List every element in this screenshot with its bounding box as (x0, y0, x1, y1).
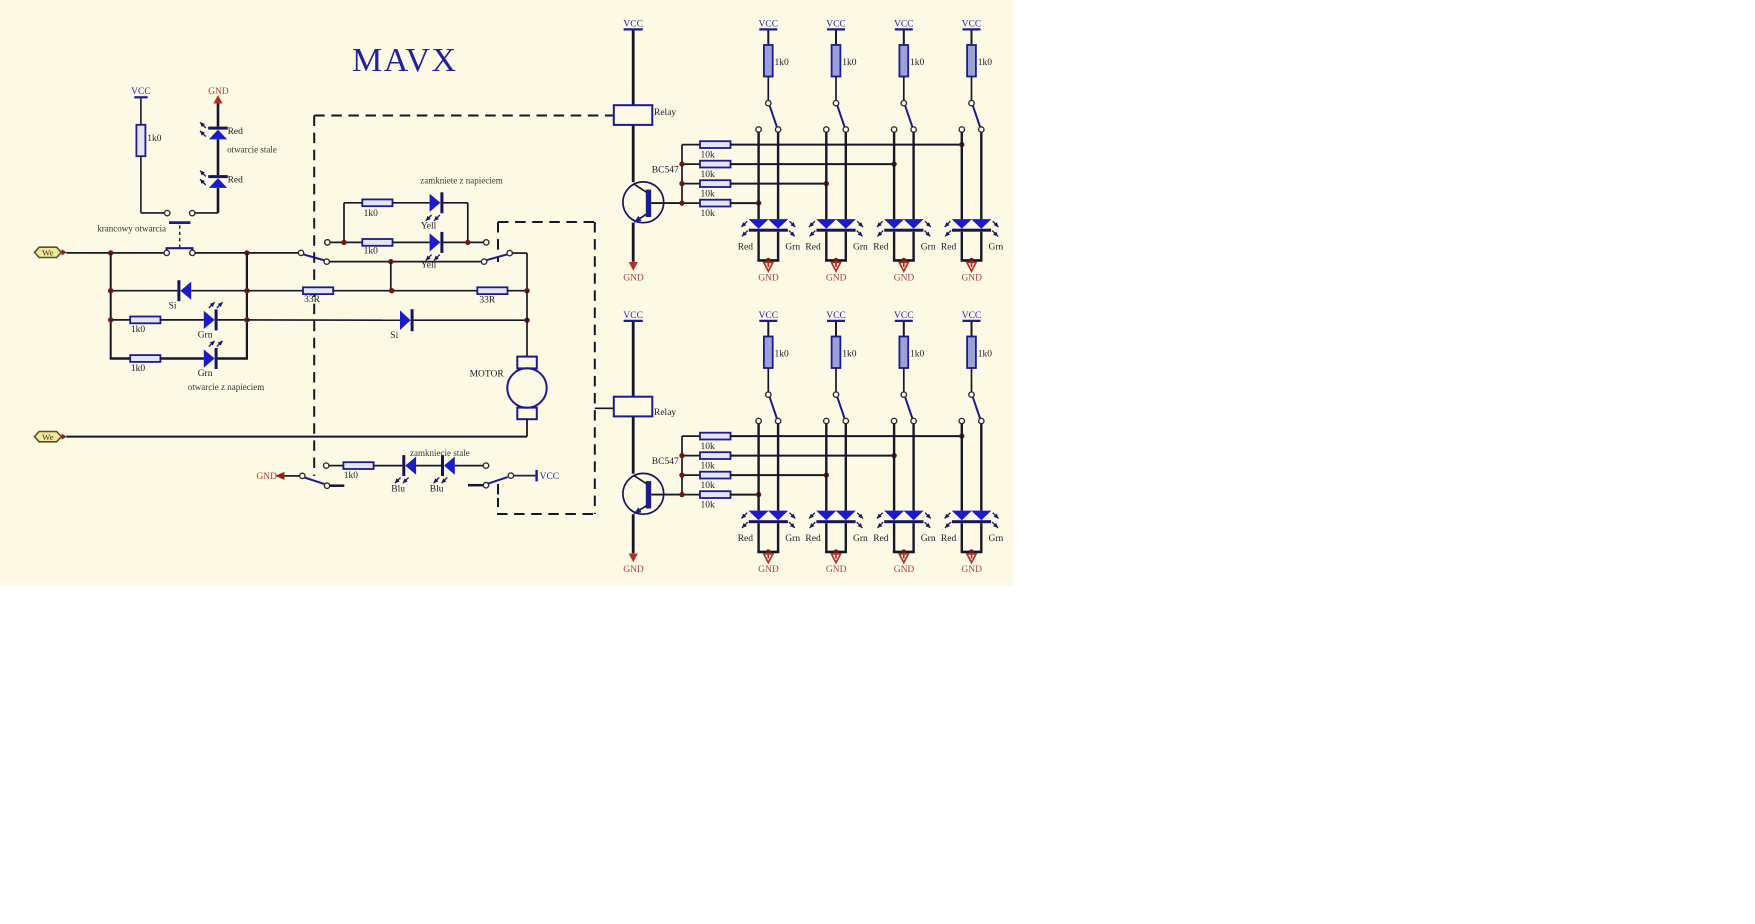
svg-text:otwarcie z napieciem: otwarcie z napieciem (188, 382, 264, 392)
supply arrow GND (column U1) (758, 262, 779, 283)
junction row3-left (108, 317, 113, 322)
wire motor to We2 row (526, 419, 528, 436)
svg-text:10k: 10k (701, 151, 716, 161)
wire LED cathodes to GND bar (column U3) (893, 232, 915, 261)
junction row C (388, 259, 393, 264)
switch throw contacts (column L3) (891, 418, 916, 423)
svg-text:10k: 10k (701, 442, 716, 452)
svg-text:VCC: VCC (540, 472, 560, 482)
wire LED risers (column U1) (759, 132, 779, 219)
wire row 3 left (111, 319, 131, 321)
svg-text:Grn: Grn (989, 243, 1004, 253)
junction motor node upper (524, 288, 529, 293)
svg-text:MOTOR: MOTOR (470, 369, 505, 379)
svg-text:Red: Red (805, 534, 821, 544)
power symbol VCC (column L4) (962, 311, 982, 321)
supply arrow GND (column L1) (758, 554, 779, 575)
svg-text:VCC: VCC (894, 19, 914, 29)
wire LED risers (column L1) (759, 424, 779, 511)
junction 10k row 4 (upper) (756, 200, 761, 205)
svg-text:Blu: Blu (391, 485, 405, 495)
svg-text:Grn: Grn (198, 331, 213, 341)
transistor BC547 (lower) (623, 457, 679, 514)
resistor 1k0 (row 3) (130, 317, 160, 336)
wire row 4 left (110, 357, 131, 360)
wire VCC to resistor (column U3) (903, 31, 905, 46)
LED Yell (row B) with emission arrows (421, 232, 444, 271)
wire base bus (lower) (651, 436, 682, 495)
resistor 1k0 (column L2) (832, 337, 857, 369)
wire 10k row 2 to column (upper) (731, 163, 895, 165)
wire row C junction down (390, 262, 392, 291)
wire 10k row 2 to column (lower) (731, 455, 895, 457)
junction base bus row 2 (lower) (679, 453, 684, 458)
wire VCC to relay (upper) (632, 31, 635, 106)
svg-text:Grn: Grn (785, 534, 800, 544)
wire resistor to switch (column L1) (767, 368, 769, 392)
svg-text:GND: GND (894, 565, 915, 575)
switch VCC lower contact (483, 483, 488, 488)
junction base bus row 3 (upper) (679, 181, 684, 186)
svg-text:VCC: VCC (962, 19, 982, 29)
svg-text:Red: Red (873, 534, 889, 544)
resistor 1k0 (top left vertical) (136, 125, 161, 156)
svg-text:10k: 10k (701, 190, 716, 200)
svg-text:GND: GND (894, 273, 915, 283)
LED Yell (row A) with emission arrows (421, 192, 444, 231)
bi-colour LED pair (column U4) (945, 219, 999, 236)
resistor 1k0 (row A) (362, 199, 392, 219)
wire resistor to LED Grn (row 3) (160, 319, 204, 321)
svg-text:1k0: 1k0 (842, 58, 857, 68)
switch GND lower contact + stub (324, 483, 344, 488)
supply arrow GND (column L4) (961, 554, 982, 575)
switch top contact (column L3) (901, 392, 906, 397)
svg-text:zamkniete z napieciem: zamkniete z napieciem (420, 176, 502, 186)
power symbol VCC (column L3) (894, 311, 914, 321)
label Red / Grn (column U2) (805, 243, 868, 253)
wire LED cathodes to GND bar (column U4) (961, 232, 983, 261)
svg-text:1k0: 1k0 (364, 209, 379, 219)
wire 33R to 33R (333, 290, 477, 292)
junction motor node lower (524, 318, 529, 323)
SPDT switch left (common + blade down) (298, 250, 329, 264)
switch top contact (column L1) (766, 392, 771, 397)
wire 10k row 3 to column (upper) (731, 183, 827, 185)
switch VCC blade (488, 477, 507, 484)
wire VCC to resistor (140, 98, 142, 125)
wire VCC to resistor (column L4) (971, 322, 973, 337)
supply arrow GND (column U2) (826, 262, 847, 283)
svg-text:GND: GND (758, 565, 779, 575)
wire 33R to motor node (508, 290, 528, 292)
resistor 10k row 1 (lower) (682, 433, 731, 452)
svg-text:1k0: 1k0 (775, 58, 790, 68)
switch throw contacts (column U4) (959, 127, 984, 132)
junction GND bar (column U2) (834, 258, 839, 263)
comment zamkniete z napieciem (420, 176, 502, 186)
wire LED to node (row 3) (218, 319, 247, 321)
wire LED risers (column U3) (894, 132, 914, 219)
wire VCC to resistor (column U1) (767, 31, 769, 46)
closed switch on main line (bridge) (164, 248, 195, 255)
wire 10k row 1 to column (upper) (731, 144, 962, 146)
wire node to diode Si (row 3 continuation) (247, 319, 400, 321)
switch top contact (column U2) (833, 100, 838, 105)
switch top contact (column U4) (969, 100, 974, 105)
wire LED to limit switch (195, 188, 218, 213)
junction base bus row 4 (lower) (679, 492, 684, 497)
wire resistor to LED Yell (row A) (393, 202, 430, 204)
svg-text:33R: 33R (304, 295, 321, 305)
switch VCC stub (468, 484, 483, 487)
wire We to main switch (66, 252, 164, 254)
svg-text:BC547: BC547 (652, 166, 679, 176)
wire LED to node (row 4) (218, 357, 248, 360)
resistor 33R (left) (303, 287, 333, 305)
svg-text:33R: 33R (479, 295, 496, 305)
switch top contact (column L4) (969, 392, 974, 397)
wire LED cathodes to GND bar (column L2) (825, 523, 847, 552)
svg-text:GND: GND (623, 565, 644, 575)
bi-colour LED pair (column U1) (741, 219, 795, 236)
dashed link box 2 left lower segment (497, 484, 499, 507)
power symbol VCC (column U1) (759, 19, 779, 29)
svg-text:1k0: 1k0 (775, 349, 790, 359)
svg-text:GND: GND (256, 472, 277, 482)
wire LED cathodes to GND bar (column L3) (893, 523, 915, 552)
wire diode to motor node (414, 319, 527, 321)
LED Red (upper) with emission arrows (200, 122, 243, 139)
svg-text:Grn: Grn (853, 243, 868, 253)
wire LED row A to right riser (443, 203, 467, 243)
svg-text:VCC: VCC (826, 311, 846, 321)
wire right ladder vertical (node B down) (246, 253, 248, 359)
power symbol VCC (column L1) (759, 311, 779, 321)
wire resistor to LED Grn (row 4) (160, 357, 204, 360)
resistor 1k0 (row B) (362, 239, 392, 256)
svg-text:Red: Red (738, 243, 754, 253)
label Red / Grn (column L4) (941, 534, 1004, 544)
wire SPDT right common to corner (513, 253, 527, 291)
row B open contact right (484, 240, 489, 245)
svg-text:Red: Red (941, 534, 957, 544)
svg-text:10k: 10k (701, 462, 716, 472)
row B open contact left (325, 240, 330, 245)
dashed link box 2 left upper segment (497, 222, 499, 262)
svg-text:We: We (42, 248, 54, 258)
wire diode Si to node (191, 290, 247, 292)
svg-text:Relay: Relay (654, 408, 676, 418)
dashed link box 2 right edge (594, 222, 596, 514)
supply arrow GND (column U3) (894, 262, 915, 283)
svg-text:GND: GND (826, 273, 847, 283)
svg-text:Yell: Yell (421, 222, 437, 232)
wire LED risers (column U4) (962, 132, 982, 219)
wire row 2 left (111, 290, 178, 292)
resistor 10k row 1 (upper) (682, 141, 731, 160)
switch blade (column U4) (973, 106, 980, 127)
svg-text:1k0: 1k0 (842, 349, 857, 359)
svg-text:Grn: Grn (921, 243, 936, 253)
resistor 33R (right) (477, 287, 507, 305)
wire VCC to resistor (column L1) (767, 322, 769, 337)
switch blade (column U2) (837, 106, 844, 127)
resistor 1k0 (row 4) (130, 355, 160, 374)
switch throw contacts (column L4) (959, 418, 984, 423)
wire resistor to switch (column L4) (971, 368, 973, 392)
LED Grn (row 3) with emission arrows (198, 302, 223, 340)
transistor BC547 (upper) (623, 166, 679, 223)
svg-text:GND: GND (961, 565, 982, 575)
wire transistor emitter to GND (upper) (632, 223, 635, 262)
supply arrow GND (upper transistor) (623, 262, 644, 283)
svg-text:VCC: VCC (759, 19, 779, 29)
wire to VCC bar (514, 475, 536, 477)
svg-text:VCC: VCC (962, 311, 982, 321)
power symbol VCC (top left) (131, 87, 151, 97)
svg-text:VCC: VCC (894, 311, 914, 321)
resistor 1k0 (column L4) (967, 337, 992, 369)
junction 10k row 3 (lower) (824, 472, 829, 477)
bi-colour LED pair (column L4) (945, 511, 999, 528)
svg-text:GND: GND (623, 273, 644, 283)
switch GND common (300, 473, 305, 478)
wire resistor to switch (column U1) (767, 77, 769, 101)
label Red / Grn (column L1) (738, 534, 801, 544)
wire VCC to resistor (column U4) (971, 31, 973, 46)
wire VCC to resistor (column L2) (835, 322, 837, 337)
wire 10k row 1 to column (lower) (731, 435, 962, 437)
svg-text:1k0: 1k0 (344, 471, 359, 481)
svg-text:Si: Si (390, 331, 398, 341)
svg-text:GND: GND (961, 273, 982, 283)
junction row2-right (244, 288, 249, 293)
switch actuator bar (169, 221, 190, 224)
comment otwarcie z napieciem (188, 382, 264, 392)
LED Blu 1 (pointing left) with emission arrows (391, 455, 416, 494)
switch blade (column U1) (770, 106, 777, 127)
switch throw contacts (column L2) (824, 418, 849, 423)
bi-colour LED pair (column L2) (809, 511, 863, 528)
power symbol VCC (column U2) (826, 19, 846, 29)
wire LED risers (column U2) (826, 132, 846, 219)
switch top contact (column L2) (833, 392, 838, 397)
dashed link relay 2 stub (595, 407, 614, 409)
label Red / Grn (column U3) (873, 243, 936, 253)
wire VCC to resistor (column U2) (835, 31, 837, 46)
svg-text:Grn: Grn (198, 369, 213, 379)
junction node A (108, 250, 113, 255)
power symbol VCC (upper relay) (623, 19, 643, 29)
SPDT switch right (blade up to common) (481, 250, 512, 264)
bi-colour LED pair (column U3) (877, 219, 931, 236)
resistor 1k0 (column U2) (832, 45, 857, 77)
switch GND upper contact (324, 463, 329, 468)
bi-colour LED pair (column L1) (741, 511, 795, 528)
svg-text:10k: 10k (701, 481, 716, 491)
LED Grn (row 4) with emission arrows (198, 341, 223, 379)
resistor 1k0 (column L1) (764, 337, 789, 369)
svg-text:1k0: 1k0 (147, 134, 162, 144)
wire VCC to resistor (column L3) (903, 322, 905, 337)
switch top contact (column U3) (901, 100, 906, 105)
svg-text:Grn: Grn (989, 534, 1004, 544)
junction 33R mid (389, 288, 394, 293)
dashed link box 2 bottom edge (497, 513, 595, 515)
switch GND blade (305, 478, 325, 485)
svg-text:VCC: VCC (131, 87, 151, 97)
svg-text:1k0: 1k0 (131, 364, 146, 374)
junction 10k row 3 (upper) (824, 181, 829, 186)
svg-text:10k: 10k (701, 170, 716, 180)
switch throw contacts (column U3) (891, 127, 916, 132)
wire GND to switch (284, 475, 299, 477)
wire resistor to switch (column L3) (903, 368, 905, 392)
svg-text:10k: 10k (701, 209, 716, 219)
wire We2 to motor (66, 436, 527, 438)
junction base bus row 3 (lower) (679, 472, 684, 477)
power symbol VCC (lower relay) (623, 311, 643, 321)
svg-text:Red: Red (873, 243, 889, 253)
junction 10k row 2 (lower) (891, 453, 896, 458)
wire LED cathodes to GND bar (column U2) (825, 232, 847, 261)
junction 10k row 4 (lower) (756, 492, 761, 497)
svg-text:Si: Si (169, 302, 177, 312)
resistor 10k row 3 (upper) (682, 180, 731, 199)
supply arrow GND (top left) (208, 87, 229, 104)
LED Blu 2 (pointing left) with emission arrows (430, 455, 455, 494)
svg-text:Grn: Grn (921, 534, 936, 544)
resistor 1k0 (column U3) (899, 45, 924, 77)
svg-text:Red: Red (228, 175, 244, 185)
dashed mechanical link vertical (left edge to limit switches) (313, 116, 315, 477)
switch blade (column L3) (905, 397, 912, 418)
junction row B left (341, 240, 346, 245)
wire LED row B to contact (443, 241, 483, 243)
wire resistor to switch (column U3) (903, 77, 905, 101)
svg-text:Grn: Grn (853, 534, 868, 544)
svg-text:1k0: 1k0 (910, 349, 925, 359)
wire resistor to switch (column U4) (971, 77, 973, 101)
svg-text:GND: GND (826, 565, 847, 575)
svg-text:GND: GND (208, 87, 229, 97)
resistor 10k row 4 (lower) (682, 491, 731, 510)
wire LED risers (column L4) (962, 424, 982, 511)
svg-text:1k0: 1k0 (131, 325, 146, 335)
svg-text:zamkniecie stale: zamkniecie stale (410, 448, 470, 458)
wire LED Blu1 to LED Blu2 (416, 465, 441, 467)
right row contact circle (483, 463, 488, 468)
wire LED cathodes to GND bar (column U1) (757, 232, 779, 261)
wire resistor to LED Yell (row B) (393, 241, 430, 243)
resistor 10k row 2 (upper) (682, 161, 731, 180)
motor M1 (470, 357, 547, 420)
junction row2-left (108, 288, 113, 293)
diode Si (pointing left) (169, 280, 192, 311)
bi-colour LED pair (column L3) (877, 511, 931, 528)
wire base bus (upper) (651, 145, 682, 204)
net flag We (upper input) (35, 247, 67, 257)
resistor 10k row 4 (upper) (682, 200, 731, 219)
svg-text:VCC: VCC (826, 19, 846, 29)
supply arrow GND (bottom left) (256, 472, 284, 482)
wire LED Blu2 to right contact (455, 465, 483, 467)
title MAVX (352, 42, 458, 79)
wire 10k row 4 to column (lower) (731, 494, 759, 496)
wire 10k row 3 to column (lower) (731, 474, 827, 476)
switch blade (column L4) (973, 397, 980, 418)
svg-text:Blu: Blu (430, 485, 444, 495)
wire row B (330, 241, 362, 243)
supply arrow GND (column L2) (826, 554, 847, 575)
wire transistor emitter to GND (lower) (632, 514, 635, 553)
switch throw contacts (column L1) (756, 418, 781, 423)
wire resistor to switch (column U2) (835, 77, 837, 101)
power symbol VCC (column L2) (826, 311, 846, 321)
label Red / Grn (column U4) (941, 243, 1004, 253)
supply arrow GND (column U4) (961, 262, 982, 283)
junction 10k row 1 (lower) (959, 433, 964, 438)
label Red / Grn (column U1) (738, 243, 801, 253)
wire switch to node B (195, 252, 298, 254)
dashed link box 2 top edge (498, 221, 595, 223)
resistor 10k row 3 (lower) (682, 472, 731, 491)
switch contact circles (krancowy otwarcia, open) (165, 210, 195, 215)
junction base bus row 2 (upper) (679, 161, 684, 166)
junction GND bar (column U3) (901, 258, 906, 263)
wire relay to transistor (lower) (632, 416, 635, 473)
svg-text:1k0: 1k0 (978, 58, 993, 68)
svg-text:VCC: VCC (623, 311, 643, 321)
wire LED cathodes to GND bar (column L4) (961, 523, 983, 552)
wire GND to LED Red (upper) (217, 104, 220, 127)
svg-text:We: We (42, 432, 54, 442)
junction 10k row 1 (upper) (959, 142, 964, 147)
svg-text:otwarcie stale: otwarcie stale (227, 145, 277, 155)
comment zamkniecie stale (410, 448, 470, 458)
svg-text:10k: 10k (701, 501, 716, 511)
supply arrow GND (lower transistor) (623, 554, 644, 575)
junction GND bar (column U4) (969, 258, 974, 263)
resistor 10k row 2 (lower) (682, 452, 731, 471)
resistor 1k0 (column L3) (899, 337, 924, 369)
resistor 1k0 (bottom row) (343, 462, 373, 481)
wire left ladder vertical (node A down) (110, 253, 112, 359)
wire LED cathodes to GND bar (column L1) (757, 523, 779, 552)
comment otwarcie stale (227, 145, 277, 155)
svg-text:Red: Red (228, 127, 244, 137)
label Red / Grn (column L3) (873, 534, 936, 544)
junction GND bar (column U1) (766, 258, 771, 263)
svg-text:VCC: VCC (759, 311, 779, 321)
svg-text:1k0: 1k0 (364, 246, 379, 256)
actuator dashed link (179, 225, 181, 247)
switch blade (column L2) (837, 397, 844, 418)
svg-text:Grn: Grn (785, 243, 800, 253)
svg-text:krancowy otwarcia: krancowy otwarcia (97, 223, 166, 233)
wire VCC to relay (lower) (632, 322, 635, 397)
power symbol VCC (column U4) (962, 19, 982, 29)
junction GND bar (column L3) (901, 549, 906, 554)
wire row C (330, 261, 482, 263)
wire relay to transistor (upper) (632, 125, 635, 182)
svg-text:VCC: VCC (623, 19, 643, 29)
wire node B to 33R (247, 290, 303, 292)
wire resistor to limit switch (141, 156, 164, 213)
switch throw contacts (column U1) (756, 127, 781, 132)
power symbol VCC (bottom left, rotated) (537, 470, 560, 482)
